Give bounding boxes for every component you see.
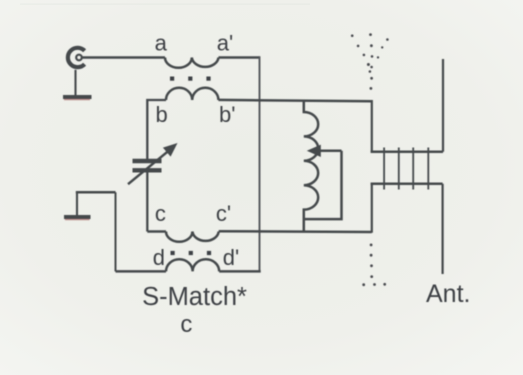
core dots between c and d	[171, 251, 212, 255]
wire coax center to winding a	[82, 56, 165, 59]
variable capacitor arrow	[128, 143, 178, 184]
wire ground2 riser to winding d	[116, 270, 167, 273]
svg-text:a: a	[155, 30, 168, 55]
svg-text:S-Match*: S-Match*	[142, 283, 247, 311]
ladder lower-left vertical down to c' line	[371, 184, 373, 233]
winding b-b'	[166, 88, 218, 100]
svg-text:b: b	[156, 102, 168, 127]
wire b left to inner rail corner	[147, 100, 166, 159]
svg-text:c: c	[155, 201, 166, 226]
antenna leg upper (vertical up from ladder)	[442, 59, 444, 152]
svg-text:Ant.: Ant.	[426, 280, 470, 308]
tap arrow into coil	[307, 145, 342, 157]
link coil L1	[304, 101, 318, 232]
ground 2 symbol	[64, 217, 91, 220]
wire ground 2 stub up	[76, 192, 78, 215]
ground (coax shield)	[63, 97, 92, 100]
link top line vertical to ladder	[371, 100, 373, 152]
winding a-a'	[165, 58, 219, 68]
svg-text:d': d'	[223, 245, 239, 270]
right rail wire a' to d'	[259, 56, 261, 271]
variable capacitor C1 plates	[133, 161, 162, 170]
svg-text:a': a'	[217, 30, 233, 55]
wire d' to right rail bottom corner	[219, 270, 261, 273]
winding d-d'	[166, 259, 219, 271]
wire a' to right rail	[219, 56, 260, 59]
svg-text:b': b'	[219, 102, 235, 127]
core dots between a and b	[170, 77, 211, 81]
wire capacitor to c	[146, 172, 148, 231]
ladder line spacer ticks	[384, 148, 428, 190]
svg-text:c: c	[180, 311, 192, 338]
svg-text:d: d	[153, 245, 165, 270]
winding c-c'	[166, 232, 219, 242]
wire ground 2 horizontal	[76, 191, 116, 194]
wire c' to ladder line bottom	[219, 230, 372, 233]
dotted radiator spray top	[351, 33, 389, 90]
wire inner rail corner to winding c	[147, 230, 166, 233]
wire b' to link top line	[218, 100, 371, 101]
ladder line top conductor	[371, 151, 443, 154]
antenna leg lower (vertical down to Ant.)	[442, 184, 444, 274]
wire coax shield down	[74, 70, 76, 95]
tap wire loop	[305, 151, 342, 219]
wire ground 2 vertical down to bottom run	[115, 192, 117, 271]
ladder line bottom conductor	[371, 183, 443, 186]
dotted radiator tail bottom	[362, 244, 386, 287]
svg-text:c': c'	[216, 201, 231, 226]
coax connector J1	[68, 48, 85, 67]
